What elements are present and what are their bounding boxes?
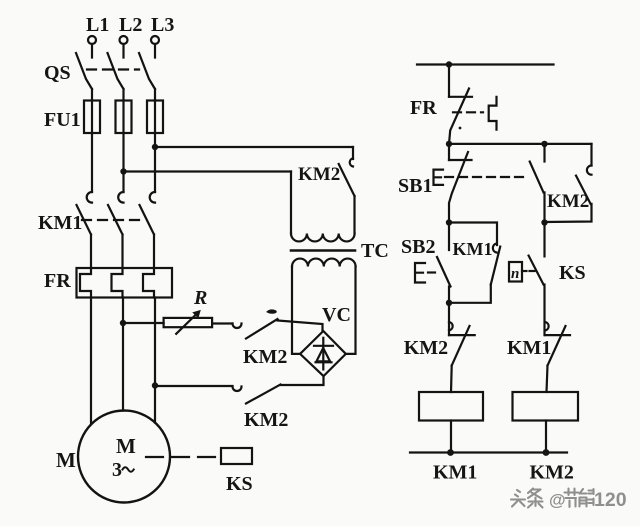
- contactor KM2 aux contact (interlock with SB1): [530, 144, 545, 223]
- disconnect switch QS: [44, 44, 155, 101]
- terminal L1: [86, 14, 109, 44]
- start button SB2: [401, 223, 451, 303]
- contactor KM1 NC contact (above KM2 coil): [507, 322, 570, 392]
- node top rail: [446, 61, 452, 67]
- node on phase2 feeding resistor row: [120, 320, 126, 326]
- node bottom rail left: [447, 449, 454, 456]
- svg-text:L2: L2: [119, 14, 142, 36]
- wire R to KM2 contact: [212, 322, 232, 324]
- thermal relay FR contact (control): [410, 65, 497, 144]
- control top rail: [417, 63, 554, 65]
- svg-text:QS: QS: [44, 62, 71, 84]
- svg-text:VC: VC: [322, 304, 351, 326]
- contactor KM2 NC contact (above KM1 coil): [404, 303, 475, 392]
- svg-text:KM1: KM1: [38, 212, 82, 234]
- node on phase3 feeding lower KM2 row: [152, 382, 158, 388]
- rectifier VC: [300, 304, 351, 376]
- svg-text:KS: KS: [559, 262, 586, 284]
- resistor R (variable): [164, 287, 213, 334]
- mid rail right node: [541, 219, 547, 225]
- svg-text:3: 3: [112, 459, 122, 481]
- svg-text:KM2: KM2: [243, 346, 287, 368]
- wire L1 fuse to KM1: [91, 133, 93, 192]
- svg-text:FU1: FU1: [44, 109, 81, 131]
- contactor KM2 contact (transformer branch): [298, 147, 355, 234]
- svg-text:120: 120: [594, 489, 627, 511]
- svg-text:KM2: KM2: [547, 191, 589, 212]
- mid rail left node: [446, 219, 452, 225]
- contactor KM2 aux contact (right branch): [545, 144, 592, 222]
- contactor KM2 contact (resistor row): [233, 309, 323, 368]
- wire L3 node to KM2 transformer branch: [155, 146, 353, 148]
- terminal L3: [151, 14, 174, 44]
- watermark: [511, 489, 627, 512]
- svg-text:@: @: [549, 491, 566, 510]
- wire FR to motor phase 1: [90, 298, 92, 424]
- svg-text:KM2: KM2: [298, 164, 340, 185]
- stop button SB1: [398, 144, 529, 223]
- svg-text:L3: L3: [151, 14, 174, 36]
- mid rail left segment: [449, 223, 497, 246]
- node below SB2: [446, 300, 452, 306]
- svg-text:R: R: [193, 287, 207, 309]
- motor M 3~: [56, 411, 170, 503]
- svg-text:KM2: KM2: [530, 462, 574, 484]
- wire FR to motor phase 3: [154, 298, 156, 423]
- svg-text:KM2: KM2: [244, 409, 288, 431]
- speed relay KS contact: [509, 223, 586, 336]
- wire node to resistor R: [123, 322, 164, 324]
- contactor KM2 contact (lower row): [233, 377, 324, 432]
- svg-text:SB2: SB2: [401, 236, 435, 258]
- svg-text:FR: FR: [410, 97, 437, 119]
- rail below FR: [449, 143, 592, 145]
- svg-text:KM1: KM1: [433, 462, 477, 484]
- wire L3 fuse to KM1: [154, 133, 156, 192]
- svg-text:KM2: KM2: [404, 337, 448, 359]
- svg-text:KS: KS: [226, 473, 253, 495]
- coil KM2: [513, 392, 579, 484]
- node bottom rail right: [543, 449, 550, 456]
- control bottom rail: [410, 451, 567, 453]
- wire node to lower KM2 contact: [155, 385, 233, 387]
- svg-text:n: n: [511, 266, 519, 282]
- svg-text:M: M: [116, 434, 136, 458]
- svg-text:TC: TC: [361, 240, 389, 262]
- fuse FU1: [44, 101, 163, 134]
- node on L3 feeding TC branch: [152, 144, 158, 150]
- svg-text:M: M: [56, 448, 76, 472]
- svg-text:KM1: KM1: [507, 337, 551, 359]
- coil KM1: [419, 392, 483, 484]
- contactor KM1 main contacts: [38, 192, 155, 268]
- svg-text:L1: L1: [86, 14, 109, 36]
- dashed shaft link motor to KS: [146, 456, 219, 458]
- terminal L2: [119, 14, 142, 44]
- thermal relay FR heaters: [44, 268, 172, 298]
- node below FR: [446, 141, 452, 147]
- svg-text:SB1: SB1: [398, 175, 432, 197]
- transformer TC: [291, 172, 389, 354]
- node on L2 feeding TC primary: [120, 168, 126, 174]
- wire L2 node to TC primary left: [124, 170, 292, 172]
- contactor KM1 aux contact (self hold): [449, 239, 500, 303]
- wire L2 fuse to KM1: [122, 133, 124, 192]
- svg-text:FR: FR: [44, 270, 71, 292]
- node KM2 branch top: [541, 141, 547, 147]
- wire FR to motor phase 2: [122, 298, 124, 411]
- speed relay KS box: [221, 448, 253, 495]
- svg-text:KM1: KM1: [453, 239, 493, 259]
